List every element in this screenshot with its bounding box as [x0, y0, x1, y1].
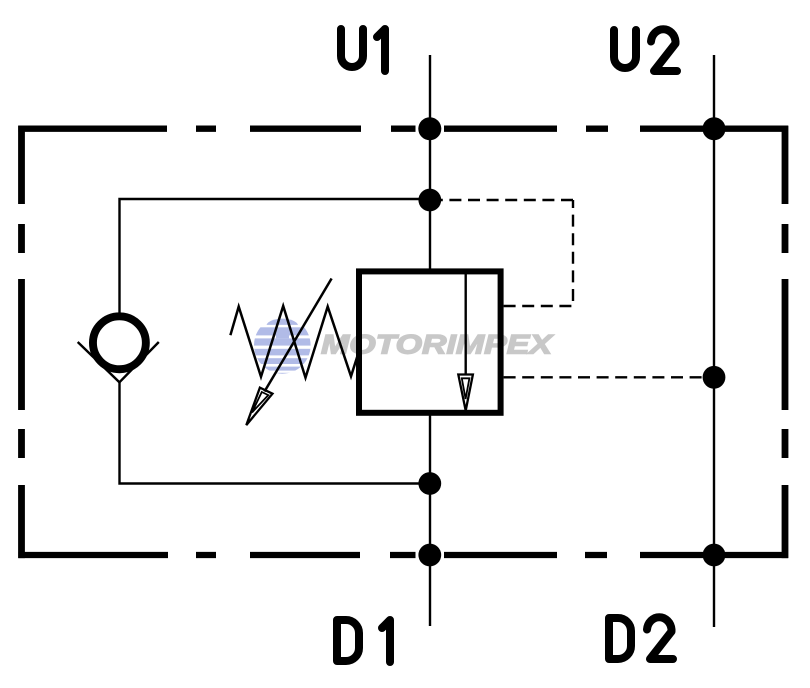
flow path arrow shaft inside box: [465, 271, 467, 374]
check valve seat V: [78, 342, 159, 382]
junction dot U2/bottom-border: [703, 544, 726, 567]
body boundary left (dash-dot): [18, 126, 25, 558]
wire U2 vertical line: [713, 55, 715, 627]
port label D2: [609, 617, 673, 659]
junction dot U1/bottom-border: [418, 544, 441, 567]
spring (relief setting): [230, 306, 359, 378]
check valve CV circle: [93, 316, 146, 369]
adjustment arrow shaft: [265, 279, 332, 392]
wire left branch bottom: [120, 382, 431, 484]
flow path arrow open head: [458, 375, 473, 411]
port label U2: [614, 29, 677, 71]
body boundary top (dash-dot): [18, 126, 788, 132]
port label D1: [337, 620, 390, 662]
junction dot U1/top-border: [418, 117, 441, 140]
pilot line A (dashed, box to upper node): [441, 200, 573, 306]
adjustment arrow open head: [246, 388, 272, 426]
junction dot U1/lower branch: [418, 472, 441, 495]
junction dot U2/pilot B: [703, 366, 726, 389]
pilot line B (dashed, box to U2): [504, 376, 714, 378]
port label U1: [341, 29, 385, 71]
junction dot U1/pilot node: [418, 189, 441, 212]
body boundary right (dash-dot): [782, 126, 789, 558]
body boundary bottom (dash-dot): [18, 552, 788, 558]
junction dot U2/top-border: [703, 117, 726, 140]
wire left branch top: [120, 199, 431, 313]
valve body box: [359, 271, 501, 412]
watermark globe logo: [253, 316, 312, 376]
wire U1 vertical line: [429, 55, 431, 626]
